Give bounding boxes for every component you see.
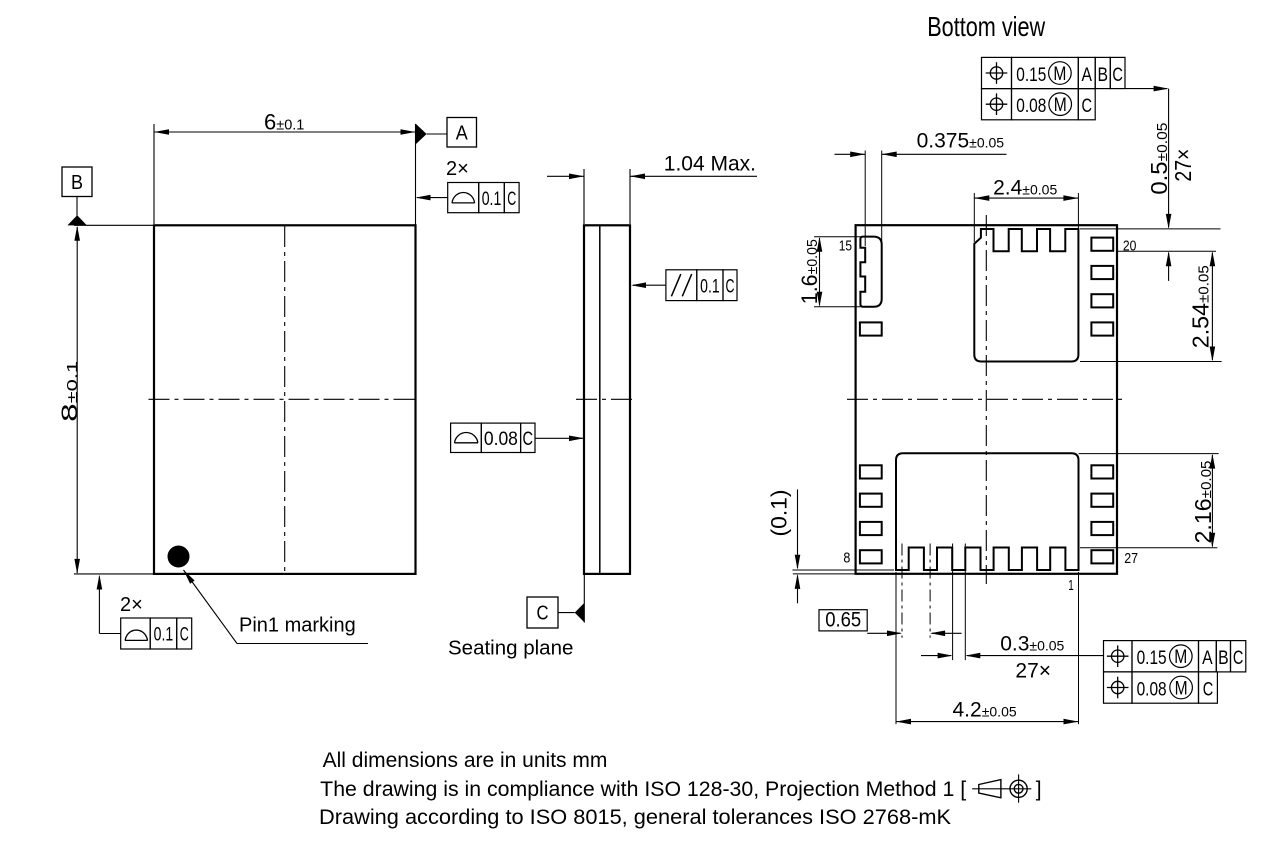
svg-text:Seating plane: Seating plane — [448, 637, 573, 660]
svg-text:A: A — [1081, 64, 1092, 86]
svg-text:(0.1): (0.1) — [767, 490, 792, 537]
svg-text:1.04 Max.: 1.04 Max. — [664, 153, 756, 176]
svg-text:0.1: 0.1 — [700, 276, 720, 297]
svg-text:0.15: 0.15 — [1137, 647, 1167, 669]
svg-text:0.15: 0.15 — [1016, 64, 1046, 86]
svg-text:0.08: 0.08 — [484, 429, 518, 450]
svg-text:0.08: 0.08 — [1016, 95, 1046, 117]
svg-text:]: ] — [1036, 778, 1042, 801]
svg-text:A: A — [1202, 647, 1213, 669]
svg-text:0.65: 0.65 — [825, 609, 861, 632]
svg-text:C: C — [1112, 64, 1123, 86]
svg-text:All dimensions are in units mm: All dimensions are in units mm — [323, 749, 608, 772]
svg-text:2×: 2× — [120, 594, 143, 616]
svg-text:1: 1 — [1068, 578, 1074, 594]
svg-text:A: A — [456, 123, 469, 145]
svg-text:C: C — [507, 189, 516, 210]
svg-text:8: 8 — [843, 550, 850, 566]
svg-text:C: C — [1233, 647, 1244, 669]
svg-text:C: C — [726, 276, 735, 297]
svg-text:M: M — [1175, 678, 1188, 699]
svg-text:C: C — [1203, 678, 1214, 700]
svg-text:0.08: 0.08 — [1137, 678, 1167, 700]
svg-text:27: 27 — [1124, 551, 1138, 567]
svg-text:The drawing is in compliance w: The drawing is in compliance with ISO 12… — [320, 778, 966, 801]
svg-text:M: M — [1053, 64, 1066, 85]
svg-text:C: C — [1081, 95, 1092, 117]
svg-text:B: B — [1097, 64, 1108, 86]
svg-text:B: B — [71, 172, 83, 194]
svg-text:Bottom view: Bottom view — [927, 11, 1046, 42]
svg-text:M: M — [1174, 647, 1187, 668]
svg-text:27×: 27× — [1015, 660, 1051, 683]
svg-text:Pin1 marking: Pin1 marking — [239, 615, 356, 637]
svg-text:Drawing according to ISO 8015,: Drawing according to ISO 8015, general t… — [319, 806, 951, 829]
svg-text:0.1: 0.1 — [482, 189, 502, 210]
svg-text:15: 15 — [839, 238, 852, 254]
svg-text:20: 20 — [1123, 239, 1137, 255]
svg-text:C: C — [180, 625, 189, 646]
svg-text:M: M — [1054, 95, 1067, 116]
svg-text:2×: 2× — [446, 158, 469, 180]
svg-text:B: B — [1218, 647, 1229, 669]
svg-text:0.1: 0.1 — [154, 625, 174, 646]
svg-text:C: C — [537, 603, 549, 625]
svg-text:27×: 27× — [1170, 149, 1196, 182]
svg-text:C: C — [523, 429, 534, 450]
